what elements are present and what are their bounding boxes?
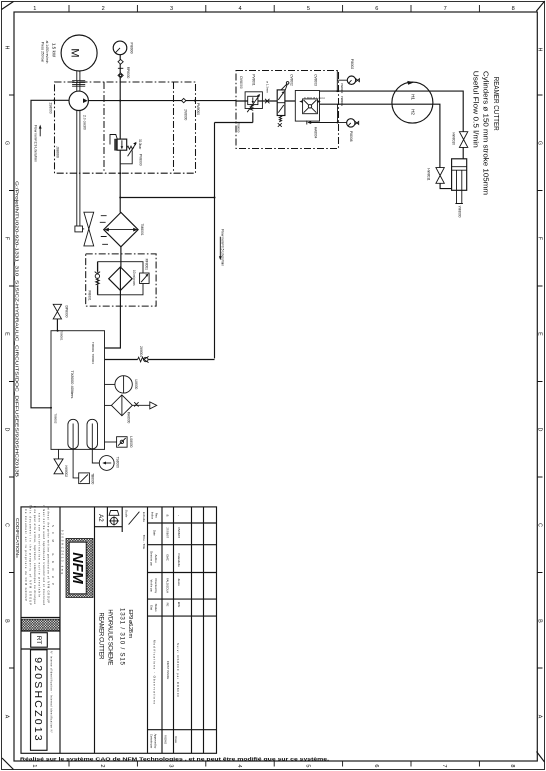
svg-text:5: 5 [307, 6, 310, 12]
svg-text:Press 250 bar: Press 250 bar [40, 42, 44, 63]
flow note suction [33, 125, 41, 163]
svg-text:it must not be used reproduced: it must not be used reproduced transmitt… [42, 505, 46, 606]
wire pump case drain shaft to fan [77, 110, 80, 226]
svg-text:T08001: T08001 [59, 330, 63, 341]
svg-text:Cylinders ø 150 mm stroke 105m: Cylinders ø 150 mm stroke 105mm [482, 71, 489, 195]
wire pocket pipes below tank [73, 449, 99, 478]
property fine print [24, 505, 65, 606]
margin file path text [14, 181, 19, 559]
svg-text:PI8008: PI8008 [349, 131, 353, 142]
svg-text:RT: RT [35, 636, 42, 645]
svg-text:0.8/0.8 L/min: 0.8/0.8 L/min [304, 96, 325, 100]
svg-text:CV8002: CV8002 [290, 74, 294, 86]
format and scale cells [97, 510, 146, 550]
svg-text:HV8002: HV8002 [64, 466, 68, 478]
svg-text:4: 4 [238, 6, 241, 12]
svg-text:Useful Flow 0.5 l/min: Useful Flow 0.5 l/min [471, 71, 478, 148]
pressure gauge PI8000 [113, 41, 134, 55]
svg-text:LS8000: LS8000 [129, 436, 133, 447]
svg-text:NFM: NFM [69, 552, 85, 584]
svg-text:VISAS: VISAS [164, 735, 168, 744]
test coupling RP8000 [118, 59, 130, 78]
svg-text:PM8002: PM8002 [340, 83, 344, 94]
svg-text:C: C [4, 523, 10, 527]
svg-text:10 microns: 10 microns [132, 270, 136, 286]
svg-text:PM8000: PM8000 [196, 103, 200, 115]
svg-text:-: - [177, 515, 181, 516]
drawing number 920SHCZ013 [31, 650, 54, 751]
relief valve PV8000 310bar [110, 135, 142, 166]
svg-text:a: a [165, 515, 169, 517]
svg-text:1: 1 [33, 6, 36, 12]
cylinder YM8000 [452, 159, 467, 218]
svg-text:PM8003: PM8003 [340, 96, 344, 107]
motor shaft and coupling [72, 71, 85, 92]
svg-text:1.5 kW: 1.5 kW [52, 43, 57, 58]
svg-text:HW8011: HW8011 [427, 168, 431, 180]
svg-text:D: D [4, 428, 10, 432]
svg-text:N° interne d'identification -: N° interne d'identification - Internal i… [49, 651, 53, 733]
wire manifold main line [236, 100, 295, 102]
svg-text:Date: Date [152, 530, 156, 536]
svg-text:A: A [537, 715, 543, 719]
svg-text:H: H [537, 48, 543, 52]
svg-text:HA8004: HA8004 [314, 127, 318, 139]
revision table texts [149, 512, 180, 749]
svg-text:G: G [4, 141, 10, 145]
svg-text:2.0 cm3/tr: 2.0 cm3/tr [83, 115, 87, 131]
svg-text:2V8000: 2V8000 [184, 109, 188, 120]
svg-text:Titre - Title: Titre - Title [142, 535, 146, 550]
svg-text:2S8000: 2S8000 [49, 103, 53, 114]
svg-text:Jeans: Jeans [177, 578, 181, 586]
svg-text:TX8000 40liters: TX8000 40liters [70, 370, 75, 398]
svg-text:G:/Projet/NTU020-920-1331_310_: G:/Projet/NTU020-920-1331_310_S15/CZ-HYD… [14, 181, 19, 477]
svg-text:T08002: T08002 [54, 413, 58, 424]
rotary union H1 H2 [392, 81, 433, 123]
svg-text:Palandella: Palandella [177, 553, 181, 567]
svg-text:1331 / 310 / S15: 1331 / 310 / S15 [119, 608, 126, 666]
svg-text:Flow nom=0.5 Liters/min: Flow nom=0.5 Liters/min [221, 229, 225, 266]
svg-text:310bar: 310bar [138, 139, 142, 150]
immersion pocket 1 [68, 419, 78, 449]
svg-text:E: E [537, 332, 543, 336]
directional valve lever operated [277, 82, 289, 127]
svg-text:Ce document est la propriete d: Ce document est la propriete de NFM GROU… [24, 509, 28, 601]
svg-text:Technologies: Technologies [86, 563, 90, 579]
svg-text:Réalisé sur le système CAO: Réalisé sur le système CAO de NFM Techno… [20, 756, 330, 762]
svg-text:FIRST ISSUE: FIRST ISSUE [166, 661, 170, 679]
svg-text:T08004: T08004 [91, 354, 95, 365]
dual check valve block CV8002 CV8003 [290, 74, 326, 121]
return filter unit FI8001 [86, 254, 156, 306]
svg-text:at 1450 rev/min: at 1450 rev/min [45, 41, 49, 64]
svg-text:HW8010: HW8010 [451, 132, 455, 145]
svg-text:H: H [4, 46, 10, 50]
svg-text:Status: Status [154, 604, 158, 613]
svg-text:Etat: Etat [149, 605, 153, 610]
svg-text:DV8000: DV8000 [239, 76, 243, 88]
svg-text:Checked by: Checked by [154, 578, 158, 593]
svg-text:H2: H2 [410, 109, 415, 115]
wire main pressure line [88, 100, 236, 102]
svg-text:CV8003: CV8003 [313, 74, 317, 86]
svg-text:G: G [537, 141, 543, 145]
svg-text:2V8004: 2V8004 [139, 346, 143, 357]
svg-text:il ne peut etre utilise, repro: il ne peut etre utilise, reproduit, comm… [33, 506, 37, 605]
svg-text:PE: PE [166, 603, 170, 607]
gauge PI8008 [338, 96, 359, 142]
level switch LS8000 [105, 436, 133, 447]
svg-text:YM8000: YM8000 [458, 206, 462, 218]
svg-text:1: 1 [31, 764, 37, 767]
NFM logo [66, 538, 93, 597]
wire manifold drain to return [236, 113, 253, 123]
pump J08000 [49, 91, 89, 158]
svg-text:PV8001: PV8001 [252, 74, 256, 86]
svg-text:8: 8 [509, 764, 515, 767]
svg-text:PI8000: PI8000 [130, 42, 134, 53]
svg-text:7: 7 [441, 764, 447, 767]
cooling fan [75, 212, 94, 246]
svg-text:RF8001: RF8001 [144, 259, 148, 271]
svg-text:27/08/07: 27/08/07 [166, 527, 170, 538]
svg-text:6: 6 [375, 6, 378, 12]
svg-text:H1: H1 [410, 94, 415, 100]
svg-text:RP8000: RP8000 [126, 67, 130, 79]
svg-text:B: B [537, 619, 543, 623]
svg-text:EP9 ø6.28 m: EP9 ø6.28 m [127, 609, 133, 638]
svg-text:DP8000: DP8000 [64, 306, 68, 318]
svg-text:F: F [537, 237, 543, 240]
power unit enclosure (chain line) [55, 82, 196, 173]
title block [21, 507, 217, 753]
svg-text:Controle par: Controle par [149, 734, 153, 748]
immersion pocket 2 [87, 419, 98, 449]
title texts [98, 608, 133, 666]
svg-text:F: F [4, 237, 10, 240]
wire valve to cylinder ports [440, 147, 463, 188]
electric motor M 1.5kW [40, 35, 97, 71]
shutoff valve HW8011 [427, 168, 445, 184]
svg-text:RA8000: RA8000 [126, 412, 130, 424]
svg-text:3: 3 [168, 764, 174, 767]
temperature indicator TB8000 [79, 473, 95, 485]
air breather RA8000 [105, 395, 157, 424]
flow note return [219, 229, 225, 266]
svg-text:Dessine par: Dessine par [149, 551, 153, 566]
drain valve HV8002 [54, 449, 68, 477]
shutoff/fill valve DP8000 [53, 304, 68, 330]
svg-text:TB8000: TB8000 [91, 473, 95, 484]
svg-text:3: 3 [170, 6, 173, 12]
svg-text:6: 6 [373, 764, 379, 767]
svg-text:4: 4 [236, 764, 242, 767]
svg-text:T08003: T08003 [91, 342, 95, 353]
check valve 2V8004 [105, 346, 215, 363]
svg-text:REAMER CUTTER: REAMER CUTTER [492, 77, 499, 131]
svg-text:PV8000: PV8000 [138, 154, 142, 166]
wire H2 line [320, 104, 440, 167]
svg-text:EPE: EPE [177, 602, 181, 608]
svg-text:LI8000: LI8000 [134, 380, 138, 390]
svg-text:A: A [4, 715, 10, 719]
svg-text:2: 2 [99, 764, 105, 767]
svg-text:GMC: GMC [166, 554, 170, 561]
bleed valve HA8004 [307, 104, 338, 138]
level gauge LI8000 [105, 376, 138, 393]
svg-text:TS8000: TS8000 [115, 457, 119, 468]
svg-text:Indice: Indice [150, 512, 154, 520]
wire cooler to filter [120, 247, 122, 267]
svg-text:Flow nom=2.9 Liters/min: Flow nom=2.9 Liters/min [33, 125, 37, 162]
svg-text:Echelle: Echelle [142, 512, 146, 522]
svg-text:REAMER CUTTER: REAMER CUTTER [98, 613, 104, 661]
svg-text:A2: A2 [97, 514, 104, 522]
wire gauge branch PM8002 [337, 71, 347, 92]
wire return collector branch [120, 123, 236, 359]
svg-text:M: M [69, 48, 81, 57]
svg-text:T08000: T08000 [237, 123, 241, 133]
svg-text:E: E [4, 332, 10, 336]
svg-text:Scale: Scale [125, 510, 129, 518]
svg-text:J08000: J08000 [56, 146, 60, 158]
pressure reducing valve PV8001 [245, 74, 262, 112]
svg-text:B: B [4, 619, 10, 623]
wire filter to tank T08003 [105, 290, 121, 348]
svg-text:without the prior written perm: without the prior written permission of … [47, 507, 51, 603]
shutoff valve HW8010 [451, 132, 467, 148]
annotation reamer cutter [471, 71, 499, 195]
svg-text:PI8002: PI8002 [350, 59, 354, 70]
wire gauge/relief branch [119, 55, 121, 213]
svg-text:HYDRAULIC SCHEME: HYDRAULIC SCHEME [107, 609, 113, 665]
junction dots [50, 90, 339, 409]
wire suction line from tank to pump [31, 100, 69, 408]
tank TX8000 40liters [51, 330, 105, 449]
air cooler TM8001 [100, 212, 144, 246]
svg-text:Modifications - Observations: Modifications - Observations [152, 640, 156, 705]
svg-text:2: 2 [102, 6, 105, 12]
svg-text:This document is the property: This document is the property of NFM GRO… [29, 505, 33, 605]
svg-text:5: 5 [304, 764, 310, 767]
svg-text:Suivi DS8000 par DO8000: Suivi DS8000 par DO8000 [176, 643, 180, 697]
svg-text:C: C [537, 523, 543, 527]
svg-text:sans son autorisation ecrite p: sans son autorisation ecrite prealable [38, 513, 42, 598]
wire H1 line [320, 91, 464, 132]
svg-text:CODIFICATION=: CODIFICATION= [15, 518, 20, 559]
svg-text:TM8001: TM8001 [140, 223, 144, 235]
quick coupling 2V8000 [182, 98, 201, 120]
svg-text:7: 7 [444, 6, 447, 12]
svg-text:Author: Author [154, 554, 158, 562]
svg-text:ø 1.3mm: ø 1.3mm [265, 81, 269, 93]
svg-text:Visas: Visas [174, 736, 178, 743]
svg-text:D: D [537, 428, 543, 432]
thermometer TS8000 [99, 456, 119, 471]
svg-text:Verifie par: Verifie par [149, 580, 153, 593]
svg-text:Rev.: Rev. [154, 513, 158, 519]
RT cell [31, 633, 48, 648]
gauge PI8002 [340, 59, 359, 94]
orifice 1.3mm [265, 81, 270, 103]
svg-text:Approved by: Approved by [153, 734, 157, 749]
svg-text:FALDIZOLA: FALDIZOLA [166, 578, 170, 593]
svg-text:920SHCZ013: 920SHCZ013 [32, 657, 44, 743]
hatched strip [22, 619, 60, 630]
valve manifold DV8000 [236, 71, 339, 149]
svg-text:FI8001: FI8001 [88, 290, 92, 300]
svg-text:05/08/07: 05/08/07 [177, 527, 181, 538]
svg-text:8: 8 [512, 6, 515, 12]
